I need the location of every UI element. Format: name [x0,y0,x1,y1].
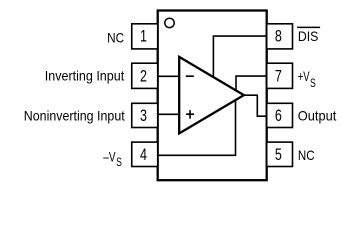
svg-text:DIS: DIS [298,28,319,44]
svg-text:Inverting Input: Inverting Input [45,67,124,83]
svg-text:Output: Output [298,107,337,123]
svg-text:NC: NC [107,29,124,45]
svg-text:8: 8 [275,27,282,46]
svg-text:Noninverting Input: Noninverting Input [24,107,125,123]
svg-text:+V: +V [298,68,310,84]
svg-text:NC: NC [298,147,315,163]
svg-text:3: 3 [140,106,147,125]
svg-text:S: S [116,155,122,169]
svg-text:1: 1 [140,27,147,46]
svg-text:4: 4 [140,145,147,164]
svg-text:6: 6 [275,106,282,125]
svg-text:S: S [310,76,316,90]
svg-text:5: 5 [275,145,282,164]
svg-text:7: 7 [275,66,282,85]
svg-text:2: 2 [140,66,147,85]
svg-text:–V: –V [103,148,116,164]
